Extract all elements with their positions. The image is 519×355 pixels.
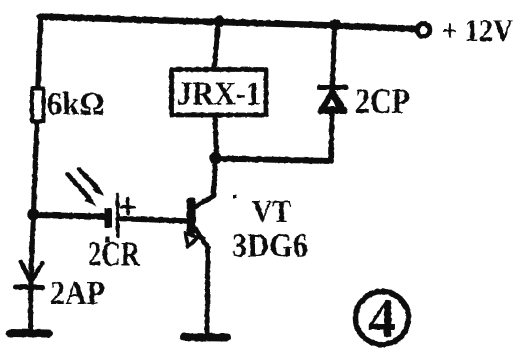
diode 2AP cathode bar bbox=[16, 285, 43, 291]
wire: resistor bottom to left node bbox=[34, 123, 38, 214]
wire: emitter down to ground bbox=[207, 248, 208, 335]
svg-text:+ 12V: + 12V bbox=[442, 12, 513, 48]
node: rail junction above relay bbox=[213, 16, 225, 28]
wire: collector node right to 2CP bottom bbox=[216, 159, 332, 162]
scan speck above 2CR label bbox=[105, 237, 110, 243]
wire: rail junction down to relay top bbox=[215, 21, 219, 67]
diode 2CP cathode bar bbox=[319, 85, 346, 90]
svg-text:3DG6: 3DG6 bbox=[232, 228, 308, 265]
svg-text:6kΩ: 6kΩ bbox=[47, 87, 105, 123]
svg-text:2CR: 2CR bbox=[88, 235, 141, 274]
node: left junction (resistor / 2CR / 2AP) bbox=[27, 208, 39, 220]
transistor VT emitter arrowhead bbox=[186, 233, 199, 247]
relay coil JRX-1 box bbox=[172, 70, 267, 116]
diode 2AP open arrowhead bbox=[21, 262, 43, 281]
light arrow 1 onto 2CR bbox=[79, 169, 98, 189]
node: collector junction bbox=[209, 152, 221, 164]
polarity + of 2CR bbox=[122, 199, 135, 214]
wire: 2CP top to rail junction bbox=[333, 25, 335, 85]
ground: emitter bbox=[184, 333, 227, 342]
svg-text:2CP: 2CP bbox=[355, 81, 410, 121]
wire: 2CR to transistor base bbox=[119, 219, 187, 222]
node: rail junction above 2CP bbox=[329, 19, 341, 31]
wire: 2AP to left ground bbox=[28, 288, 33, 330]
svg-text:JRX-1: JRX-1 bbox=[177, 76, 261, 113]
wire: up from corner to 2CP base bbox=[331, 112, 332, 161]
figure number 4 circle bbox=[356, 292, 409, 345]
scan speck left of VT label bbox=[233, 195, 237, 199]
terminal: +12V supply terminal bbox=[417, 24, 430, 37]
ground: left bbox=[10, 329, 49, 338]
light arrow 2 onto 2CR bbox=[68, 175, 89, 199]
wire: relay bottom to collector node bbox=[215, 117, 217, 157]
svg-text:2AP: 2AP bbox=[50, 275, 105, 312]
photocell 2CR thick plate bbox=[105, 208, 113, 228]
svg-text:4: 4 bbox=[368, 288, 396, 349]
wire: left node to 2CR plate bbox=[34, 215, 107, 217]
svg-text:VT: VT bbox=[252, 193, 291, 229]
transistor VT collector lead bbox=[195, 159, 216, 207]
transistor VT emitter lead bbox=[195, 229, 208, 248]
resistor R 6kΩ bbox=[32, 89, 44, 122]
photocell 2CR long plate bbox=[116, 194, 120, 236]
transistor VT base bar bbox=[187, 198, 196, 235]
diode 2CP triangle bbox=[320, 91, 345, 112]
wire: rail down to resistor top bbox=[38, 17, 41, 89]
wire: top supply rail bbox=[40, 17, 417, 30]
wire: left node down to 2AP bbox=[31, 215, 34, 286]
